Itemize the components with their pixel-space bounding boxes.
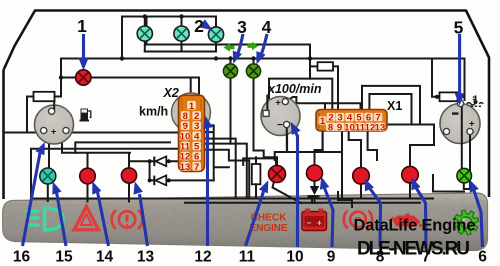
- callout numbers top: [77, 16, 464, 38]
- wire: cyan lamps lower bus: [145, 51, 216, 53]
- callout arrow 2: [200, 19, 213, 30]
- wire: strip-top buses: [31, 199, 433, 203]
- svg-text:13: 13: [375, 122, 386, 133]
- lamp cyan B: [174, 26, 189, 41]
- svg-text:−: −: [277, 120, 283, 131]
- lamp green 6: [457, 168, 472, 183]
- temperature icon: [467, 96, 483, 107]
- svg-text:+: +: [317, 219, 322, 228]
- diode D2 (points left): [155, 176, 166, 186]
- svg-text:2: 2: [194, 16, 204, 36]
- svg-text:11: 11: [239, 248, 256, 265]
- strip icon: CHECK ENGINE: [250, 213, 288, 235]
- callout arrow 10: [291, 122, 301, 247]
- strip icon: low beam headlight: [27, 208, 63, 230]
- X2 gray circle: [172, 93, 211, 132]
- wire: tach resistor feed: [147, 17, 339, 111]
- svg-text:X1: X1: [387, 99, 402, 113]
- svg-text:6: 6: [478, 248, 487, 265]
- svg-text:DLE-NEWS.RU: DLE-NEWS.RU: [357, 239, 470, 260]
- speedometer gauge: [35, 105, 74, 144]
- right gauge: [440, 104, 480, 144]
- callout numbers bottom: [13, 248, 487, 265]
- callout arrow 9: [320, 177, 333, 248]
- wire: speedo bottom columns: [49, 143, 75, 169]
- svg-text:5: 5: [454, 18, 464, 38]
- wire: middle small box: [243, 157, 276, 165]
- strip icon: battery: [302, 209, 327, 231]
- lamp red 8: [353, 168, 370, 185]
- diode D1 (points left): [155, 156, 166, 166]
- svg-text:7: 7: [194, 162, 199, 173]
- wire: lamp1 branch: [61, 59, 76, 97]
- lamp green 4: [246, 64, 260, 78]
- wire: lamp 7 feed: [410, 145, 434, 199]
- lamp red 7: [402, 166, 419, 183]
- callout arrow 16: [23, 142, 45, 246]
- wire: nested paths to lamps 13/14: [31, 142, 179, 197]
- lamp red 11 (with X): [269, 166, 286, 183]
- lamp red 9: [307, 165, 323, 181]
- svg-text:−: −: [307, 219, 312, 228]
- callout arrow 4: [256, 34, 267, 64]
- svg-text:8: 8: [328, 122, 334, 133]
- callout arrow 5: [455, 34, 465, 106]
- wire: green lamp 3 column: [230, 59, 232, 144]
- wire: top lamp box left vertical: [121, 17, 123, 59]
- strip icon: oil can: [390, 214, 422, 228]
- wire: X1 top feeds: [325, 86, 369, 110]
- svg-text:DataLife Engine: DataLife Engine: [354, 217, 476, 235]
- wire: lamp 8 feed: [349, 140, 361, 199]
- callout arrow 14: [92, 181, 108, 246]
- wire: diode rows: [129, 161, 214, 180]
- svg-text:x100/min: x100/min: [267, 82, 322, 96]
- wire: lamp 9 feed: [315, 131, 323, 165]
- wire: bus to right gauge terminal: [464, 59, 466, 101]
- wire: X1 bottom feeds: [323, 131, 377, 199]
- lamp green 3: [223, 64, 237, 78]
- lamp cyan C: [208, 27, 223, 42]
- callout arrow 3: [233, 34, 243, 64]
- svg-text:+: +: [469, 119, 475, 130]
- fuel pump icon: [80, 109, 91, 122]
- panel outline: [4, 11, 490, 200]
- wire: top lamp box horizontal: [122, 16, 216, 18]
- callout arrow 1: [79, 34, 89, 71]
- callout arrow 13: [134, 181, 148, 246]
- wire: green lamp 4 column: [253, 59, 255, 151]
- wire: battery stub: [311, 197, 313, 204]
- wire: box above cog: [433, 175, 464, 192]
- lamp cyan A: [137, 26, 152, 41]
- svg-text:13: 13: [137, 248, 155, 265]
- svg-text:10: 10: [344, 122, 355, 133]
- svg-text:1: 1: [320, 116, 326, 127]
- wire: lamp 11 stubs: [254, 151, 302, 204]
- junction dots: [120, 56, 124, 60]
- svg-text:1: 1: [77, 16, 87, 36]
- wire: lamp stubs top row: [145, 17, 216, 52]
- wire: right gauge resistor: [432, 59, 465, 97]
- resistor R-speedo leads: [27, 97, 61, 133]
- wire: x100/min box: [269, 79, 332, 110]
- resistor R-tach: [318, 62, 334, 70]
- svg-text:km/h: km/h: [139, 105, 168, 119]
- callout arrow 11: [246, 180, 269, 246]
- wire: speedo right terminal long bus: [69, 132, 179, 134]
- lamp teal 15: [40, 168, 56, 184]
- vertical resistor: [252, 164, 261, 184]
- X2 connector: [179, 95, 205, 171]
- wire: tach left terminal up: [266, 96, 268, 111]
- callout arrow 15: [52, 182, 66, 247]
- lamp red 14: [80, 168, 96, 184]
- lamp red 13: [121, 168, 136, 183]
- svg-text:10: 10: [286, 248, 303, 265]
- callout arrow 12: [203, 116, 213, 246]
- diode down under lamp9: [314, 181, 316, 186]
- junction dots diodes: [148, 159, 152, 163]
- svg-text:+: +: [51, 127, 56, 137]
- wire: X2 feeds from bus: [91, 78, 199, 96]
- wire: lamp columns to strip: [48, 184, 129, 202]
- wire: steps above oil icon: [338, 192, 352, 207]
- svg-text:ENGINE: ENGINE: [250, 223, 288, 234]
- wire: tach minus terminal down: [205, 125, 340, 199]
- green turn arrow left: [224, 43, 235, 51]
- wire: speedo left terminal: [5, 132, 41, 134]
- svg-text:16: 16: [13, 248, 31, 265]
- wire: X1 right to gauge area: [387, 125, 434, 146]
- wire: right gauge bottom to lamp 6: [464, 184, 470, 190]
- X1 connector: [316, 110, 387, 132]
- callout arrow 7: [411, 177, 426, 247]
- svg-text:3: 3: [237, 17, 247, 37]
- svg-text:9: 9: [327, 248, 336, 265]
- svg-text:X2: X2: [163, 86, 179, 100]
- svg-text:9: 9: [337, 122, 342, 133]
- bottom gray strip: [3, 193, 488, 251]
- resistor R-speedo: [34, 92, 55, 101]
- wire: tach plus terminal to X1: [286, 97, 361, 110]
- svg-text:13: 13: [180, 162, 191, 173]
- callout arrow 8: [365, 178, 381, 247]
- wire: X2 right side steps: [205, 125, 250, 198]
- svg-text:+: +: [276, 97, 281, 107]
- strip icon: hazard triangle: [74, 207, 98, 230]
- callout arrow 6: [470, 180, 483, 248]
- green turn arrow right: [248, 42, 259, 50]
- strip icon: brake warning: [112, 210, 143, 229]
- tachometer gauge: [261, 97, 300, 136]
- strip icon: gear: [454, 210, 479, 235]
- svg-text:4: 4: [262, 17, 272, 37]
- wire: long main bus: [61, 58, 465, 60]
- svg-text:12: 12: [194, 248, 211, 265]
- lamp red 1: [76, 70, 91, 85]
- svg-text:14: 14: [96, 248, 114, 265]
- svg-text:15: 15: [55, 248, 73, 265]
- strip icon: parking brake: [344, 211, 372, 229]
